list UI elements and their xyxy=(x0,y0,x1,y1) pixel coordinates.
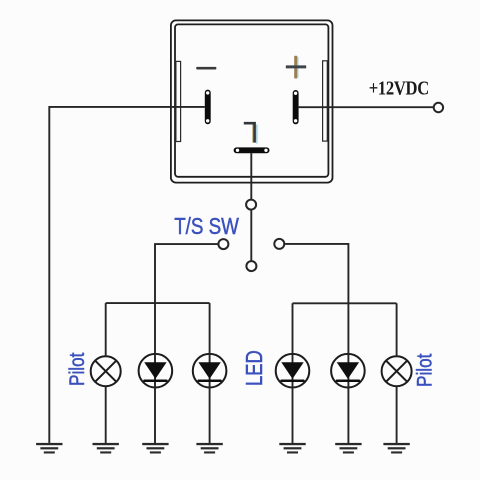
svg-text:T/S SW: T/S SW xyxy=(174,213,239,240)
svg-text:Pilot: Pilot xyxy=(65,352,89,386)
svg-text:+12VDC: +12VDC xyxy=(369,77,429,100)
svg-text:Pilot: Pilot xyxy=(413,353,437,387)
svg-text:LED: LED xyxy=(242,350,267,386)
